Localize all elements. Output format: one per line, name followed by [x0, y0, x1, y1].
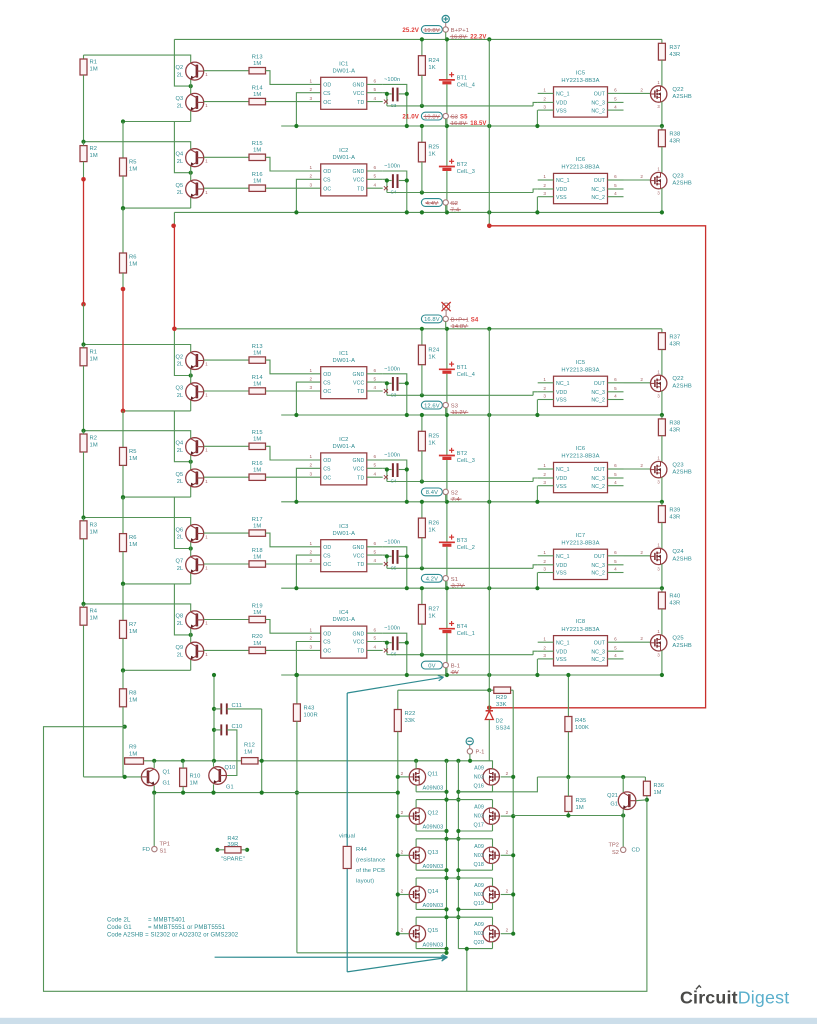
- svg-text:2: 2: [543, 386, 546, 391]
- svg-text:Q24: Q24: [672, 549, 684, 555]
- svg-text:2: 2: [401, 810, 404, 815]
- svg-text:11.2V: 11.2V: [452, 410, 467, 416]
- svg-text:Q1: Q1: [163, 770, 171, 776]
- svg-text:5: 5: [614, 645, 617, 650]
- svg-text:2: 2: [506, 928, 509, 933]
- svg-text:1M: 1M: [576, 805, 584, 811]
- svg-text:2: 2: [506, 849, 509, 854]
- svg-text:HY2213-8B3A: HY2213-8B3A: [561, 540, 599, 546]
- svg-text:1K: 1K: [428, 441, 435, 447]
- svg-text:CS: CS: [323, 91, 331, 97]
- svg-text:39R: 39R: [227, 842, 238, 848]
- svg-text:DW01-A: DW01-A: [333, 68, 356, 74]
- svg-text:S4: S4: [471, 318, 479, 324]
- svg-text:2: 2: [309, 87, 312, 92]
- svg-text:Q6: Q6: [176, 527, 184, 533]
- svg-text:0V: 0V: [452, 670, 459, 676]
- svg-text:R38: R38: [669, 132, 680, 138]
- svg-text:1M: 1M: [253, 468, 261, 474]
- svg-text:~100n: ~100n: [384, 164, 400, 170]
- svg-text:P-1: P-1: [476, 750, 485, 756]
- svg-text:A2SHB: A2SHB: [672, 643, 692, 649]
- svg-text:5: 5: [373, 87, 376, 92]
- svg-text:IC6: IC6: [576, 446, 585, 452]
- svg-text:Code G1: Code G1: [107, 925, 132, 931]
- svg-text:OUT: OUT: [594, 467, 606, 473]
- svg-text:1M: 1M: [129, 542, 137, 548]
- svg-text:G1: G1: [226, 785, 234, 791]
- svg-text:IC1: IC1: [339, 61, 348, 67]
- svg-text:2L: 2L: [177, 190, 183, 196]
- svg-text:IC4: IC4: [339, 610, 349, 616]
- svg-text:DW01-A: DW01-A: [333, 617, 356, 623]
- svg-text:4: 4: [373, 385, 376, 390]
- svg-text:VCC: VCC: [353, 553, 364, 559]
- svg-text:1M: 1M: [253, 437, 261, 443]
- svg-text:2: 2: [543, 645, 546, 650]
- svg-text:R20: R20: [252, 634, 263, 640]
- svg-text:12.6V: 12.6V: [424, 403, 440, 409]
- svg-text:R25: R25: [428, 145, 439, 151]
- svg-text:16.8V: 16.8V: [451, 35, 467, 41]
- svg-text:BT3: BT3: [457, 538, 468, 544]
- svg-text:Q19: Q19: [474, 901, 485, 907]
- svg-text:GND: GND: [352, 169, 364, 175]
- svg-text:HY2213-8B3A: HY2213-8B3A: [561, 627, 599, 633]
- svg-text:2L: 2L: [177, 535, 183, 541]
- svg-text:Q3: Q3: [176, 386, 184, 392]
- svg-text:2: 2: [309, 376, 312, 381]
- svg-text:IC2: IC2: [339, 148, 348, 154]
- svg-text:Q23: Q23: [672, 462, 683, 468]
- svg-text:3: 3: [543, 653, 546, 658]
- svg-text:IC5: IC5: [576, 70, 585, 76]
- svg-text:R45: R45: [575, 718, 586, 724]
- svg-text:~100n: ~100n: [384, 366, 400, 372]
- svg-text:1M: 1M: [244, 750, 252, 756]
- svg-text:N03: N03: [474, 774, 484, 780]
- svg-text:VCC: VCC: [353, 640, 364, 646]
- svg-text:2: 2: [309, 549, 312, 554]
- svg-text:21.0V: 21.0V: [402, 114, 419, 121]
- svg-text:4: 4: [614, 480, 617, 485]
- svg-text:Q18: Q18: [474, 862, 485, 868]
- svg-text:1M: 1M: [253, 148, 261, 154]
- svg-text:= MMBT5401: = MMBT5401: [148, 918, 186, 924]
- svg-text:G1: G1: [610, 802, 618, 808]
- svg-text:3: 3: [543, 191, 546, 196]
- svg-text:~100n: ~100n: [384, 453, 400, 459]
- svg-text:TP2: TP2: [608, 843, 619, 849]
- svg-text:Q5: Q5: [176, 472, 184, 478]
- svg-text:18.5V: 18.5V: [470, 121, 486, 127]
- svg-text:R19: R19: [252, 603, 263, 609]
- svg-text:43R: 43R: [669, 341, 680, 347]
- svg-text:1M: 1M: [253, 554, 261, 560]
- svg-text:~100n: ~100n: [384, 626, 400, 632]
- svg-text:5: 5: [614, 183, 617, 188]
- svg-text:16.8V: 16.8V: [451, 121, 467, 127]
- svg-text:R2: R2: [90, 146, 98, 152]
- svg-text:S2: S2: [612, 850, 619, 856]
- svg-text:1M: 1M: [253, 92, 261, 98]
- svg-text:B+P+1: B+P+1: [451, 318, 469, 324]
- svg-text:OC: OC: [323, 389, 331, 395]
- svg-text:~100n: ~100n: [384, 77, 400, 83]
- svg-text:TD: TD: [357, 562, 364, 568]
- svg-text:layout): layout): [356, 879, 374, 885]
- svg-text:1M: 1M: [253, 610, 261, 616]
- svg-text:S2: S2: [451, 491, 458, 497]
- svg-text:R27: R27: [428, 607, 439, 613]
- svg-text:IC8: IC8: [576, 619, 585, 625]
- svg-text:NC_1: NC_1: [556, 640, 570, 646]
- svg-text:CelL_4: CelL_4: [457, 82, 475, 88]
- svg-text:1M: 1M: [253, 524, 261, 530]
- svg-text:4: 4: [614, 394, 617, 399]
- svg-text:33K: 33K: [496, 702, 507, 708]
- svg-text:100K: 100K: [575, 725, 589, 731]
- svg-text:of the PCB: of the PCB: [356, 868, 385, 874]
- svg-text:1M: 1M: [129, 262, 137, 268]
- svg-text:5: 5: [373, 376, 376, 381]
- svg-text:1: 1: [543, 463, 546, 468]
- svg-text:2L: 2L: [177, 448, 183, 454]
- svg-text:6: 6: [614, 88, 617, 93]
- svg-text:6: 6: [614, 463, 617, 468]
- svg-text:A09: A09: [474, 805, 484, 811]
- svg-text:5: 5: [614, 97, 617, 102]
- svg-text:NC_2: NC_2: [591, 398, 605, 404]
- svg-text:TD: TD: [357, 649, 364, 655]
- svg-text:VSS: VSS: [556, 657, 567, 663]
- svg-text:19.8V: 19.8V: [424, 28, 440, 34]
- svg-text:G1: G1: [163, 781, 171, 787]
- svg-text:NC_1: NC_1: [556, 178, 570, 184]
- svg-text:R6: R6: [129, 255, 137, 261]
- svg-text:HY2213-8B3A: HY2213-8B3A: [561, 78, 599, 84]
- svg-text:4: 4: [614, 104, 617, 109]
- svg-text:Q14: Q14: [428, 889, 439, 895]
- svg-text:2L: 2L: [177, 362, 183, 368]
- svg-text:NC_3: NC_3: [591, 187, 605, 193]
- svg-text:1K: 1K: [428, 152, 435, 158]
- svg-text:A09N03: A09N03: [423, 786, 444, 792]
- svg-text:DW01-A: DW01-A: [333, 444, 356, 450]
- svg-text:A09: A09: [474, 765, 484, 771]
- svg-text:OUT: OUT: [594, 640, 606, 646]
- svg-text:1M: 1M: [90, 616, 98, 622]
- svg-text:3: 3: [309, 182, 312, 187]
- svg-text:NC_2: NC_2: [591, 571, 605, 577]
- svg-text:3: 3: [309, 558, 312, 563]
- svg-text:3: 3: [543, 567, 546, 572]
- svg-text:CelL_3: CelL_3: [457, 169, 475, 175]
- svg-text:N03: N03: [474, 853, 484, 859]
- svg-text:NC_1: NC_1: [556, 467, 570, 473]
- svg-text:R38: R38: [669, 421, 680, 427]
- svg-text:R16: R16: [252, 172, 263, 178]
- svg-text:R9: R9: [129, 745, 137, 751]
- svg-text:Q4: Q4: [176, 152, 184, 158]
- svg-text:2L: 2L: [177, 652, 183, 658]
- svg-text:VDD: VDD: [556, 390, 567, 396]
- svg-text:R44: R44: [356, 847, 368, 853]
- svg-text:A2SHB: A2SHB: [672, 383, 692, 389]
- svg-text:1M: 1M: [129, 697, 137, 703]
- svg-text:VSS: VSS: [556, 571, 567, 577]
- svg-text:6: 6: [614, 377, 617, 382]
- svg-text:2: 2: [543, 183, 546, 188]
- svg-text:R17: R17: [252, 517, 263, 523]
- svg-text:19.8V: 19.8V: [424, 114, 440, 120]
- svg-text:A09N03: A09N03: [423, 825, 444, 831]
- svg-text:43R: 43R: [669, 514, 680, 520]
- svg-text:4: 4: [373, 558, 376, 563]
- svg-text:3: 3: [309, 645, 312, 650]
- svg-text:2L: 2L: [177, 72, 183, 78]
- svg-text:Code 2L: Code 2L: [107, 918, 131, 924]
- svg-text:R15: R15: [252, 430, 263, 436]
- svg-text:1M: 1M: [654, 790, 662, 796]
- svg-text:B-1: B-1: [451, 664, 460, 670]
- svg-text:BT2: BT2: [457, 451, 468, 457]
- svg-text:1: 1: [309, 79, 312, 84]
- svg-text:Q5: Q5: [176, 183, 184, 189]
- svg-text:7.4: 7.4: [451, 208, 460, 214]
- svg-text:IC6: IC6: [576, 157, 585, 163]
- svg-text:2: 2: [640, 550, 643, 555]
- svg-text:2: 2: [401, 928, 404, 933]
- svg-text:2: 2: [543, 97, 546, 102]
- svg-text:GND: GND: [352, 458, 364, 464]
- svg-text:1: 1: [309, 454, 312, 459]
- svg-text:DW01-A: DW01-A: [333, 358, 356, 364]
- svg-text:R18: R18: [252, 548, 263, 554]
- svg-text:OD: OD: [323, 169, 331, 175]
- svg-text:A09N03: A09N03: [423, 942, 444, 948]
- svg-text:GND: GND: [352, 631, 364, 637]
- svg-text:1K: 1K: [428, 614, 435, 620]
- svg-text:A09N03: A09N03: [423, 864, 444, 870]
- svg-text:R13: R13: [252, 344, 263, 350]
- svg-text:6: 6: [373, 627, 376, 632]
- svg-text:OD: OD: [323, 631, 331, 637]
- svg-text:2L: 2L: [177, 566, 183, 572]
- svg-text:2: 2: [640, 87, 643, 92]
- svg-text:OUT: OUT: [594, 178, 606, 184]
- svg-text:R8: R8: [129, 690, 137, 696]
- svg-text:Q9: Q9: [176, 645, 184, 651]
- svg-text:S3: S3: [451, 115, 458, 121]
- svg-text:TD: TD: [357, 475, 364, 481]
- svg-text:1K: 1K: [428, 527, 435, 533]
- svg-text:OUT: OUT: [594, 92, 606, 98]
- svg-text:IC5: IC5: [576, 360, 585, 366]
- svg-text:virtual: virtual: [339, 834, 355, 840]
- svg-text:6: 6: [373, 368, 376, 373]
- svg-text:4: 4: [373, 471, 376, 476]
- svg-text:Q23: Q23: [672, 173, 683, 179]
- svg-text:6: 6: [373, 79, 376, 84]
- svg-text:N03: N03: [474, 892, 484, 898]
- svg-text:BT4: BT4: [457, 624, 468, 630]
- svg-text:14.8V: 14.8V: [452, 324, 468, 330]
- svg-text:R2: R2: [90, 436, 98, 442]
- svg-text:NC_3: NC_3: [591, 649, 605, 655]
- svg-text:R7: R7: [129, 622, 137, 628]
- svg-text:43R: 43R: [669, 601, 680, 607]
- svg-text:HY2213-8B3A: HY2213-8B3A: [561, 367, 599, 373]
- svg-text:3: 3: [543, 480, 546, 485]
- svg-text:3: 3: [309, 385, 312, 390]
- svg-text:R36: R36: [654, 783, 665, 789]
- svg-text:3: 3: [543, 104, 546, 109]
- svg-text:S1: S1: [451, 577, 458, 583]
- svg-text:R6: R6: [129, 535, 137, 541]
- svg-text:R39: R39: [669, 507, 680, 513]
- svg-text:1M: 1M: [129, 752, 137, 758]
- svg-text:Q8: Q8: [176, 614, 184, 620]
- svg-text:NC_1: NC_1: [556, 92, 570, 98]
- svg-text:4: 4: [373, 96, 376, 101]
- svg-text:1K: 1K: [428, 65, 435, 71]
- svg-text:1: 1: [309, 165, 312, 170]
- svg-text:2: 2: [401, 849, 404, 854]
- svg-text:NC_3: NC_3: [591, 476, 605, 482]
- svg-text:Q12: Q12: [428, 811, 439, 817]
- svg-text:4: 4: [373, 645, 376, 650]
- svg-text:TD: TD: [357, 389, 364, 395]
- svg-text:Q20: Q20: [474, 940, 485, 946]
- svg-text:C11: C11: [232, 703, 243, 709]
- svg-text:5: 5: [614, 559, 617, 564]
- svg-text:1M: 1M: [90, 67, 98, 73]
- svg-text:2: 2: [309, 463, 312, 468]
- svg-text:A2SHB: A2SHB: [672, 94, 692, 100]
- svg-text:CS: CS: [323, 640, 331, 646]
- svg-text:1: 1: [543, 88, 546, 93]
- svg-text:HY2213-8B3A: HY2213-8B3A: [561, 165, 599, 171]
- svg-text:Q21: Q21: [607, 793, 618, 799]
- svg-text:4: 4: [614, 191, 617, 196]
- svg-text:43R: 43R: [669, 428, 680, 434]
- svg-text:A2SHB: A2SHB: [672, 556, 692, 562]
- svg-text:FD: FD: [142, 847, 150, 853]
- svg-text:R40: R40: [669, 594, 680, 600]
- svg-text:NC_1: NC_1: [556, 381, 570, 387]
- svg-text:2L: 2L: [177, 393, 183, 399]
- svg-text:R14: R14: [252, 375, 264, 381]
- svg-text:NC_3: NC_3: [591, 563, 605, 569]
- svg-text:S3: S3: [451, 404, 458, 410]
- svg-text:R24: R24: [428, 58, 440, 64]
- svg-text:TD: TD: [357, 100, 364, 106]
- svg-text:2: 2: [640, 377, 643, 382]
- svg-text:A09: A09: [474, 922, 484, 928]
- svg-text:1M: 1M: [190, 781, 198, 787]
- svg-text:1: 1: [543, 174, 546, 179]
- svg-text:S1: S1: [160, 849, 167, 855]
- svg-text:VSS: VSS: [556, 195, 567, 201]
- svg-text:22.2V: 22.2V: [470, 35, 486, 41]
- svg-text:1M: 1M: [253, 381, 261, 387]
- svg-text:VDD: VDD: [556, 101, 567, 107]
- svg-text:VCC: VCC: [353, 380, 364, 386]
- svg-text:CD: CD: [632, 848, 641, 854]
- svg-text:2: 2: [640, 636, 643, 641]
- svg-text:2: 2: [401, 771, 404, 776]
- svg-text:OUT: OUT: [594, 554, 606, 560]
- svg-text:TD: TD: [357, 186, 364, 192]
- svg-text:1M: 1M: [253, 641, 261, 647]
- svg-text:1M: 1M: [90, 153, 98, 159]
- svg-text:OC: OC: [323, 649, 331, 655]
- svg-text:43R: 43R: [669, 52, 680, 58]
- svg-text:R14: R14: [252, 85, 264, 91]
- svg-text:1: 1: [543, 636, 546, 641]
- svg-text:NC_3: NC_3: [591, 101, 605, 107]
- svg-text:4: 4: [614, 653, 617, 658]
- svg-text:8.4V: 8.4V: [426, 490, 438, 496]
- svg-text:VSS: VSS: [556, 398, 567, 404]
- svg-text:R43: R43: [304, 706, 315, 712]
- svg-text:BT1: BT1: [457, 365, 468, 371]
- svg-text:VDD: VDD: [556, 649, 567, 655]
- svg-text:Q2: Q2: [176, 65, 184, 71]
- svg-text:6: 6: [614, 174, 617, 179]
- svg-text:1M: 1M: [90, 443, 98, 449]
- svg-text:1M: 1M: [253, 61, 261, 67]
- svg-text:R1: R1: [90, 60, 98, 66]
- svg-text:DW01-A: DW01-A: [333, 155, 356, 161]
- svg-text:A2SHB: A2SHB: [672, 470, 692, 476]
- svg-text:S2: S2: [451, 201, 458, 207]
- svg-text:2: 2: [506, 810, 509, 815]
- svg-text:R5: R5: [129, 449, 137, 455]
- svg-text:NC_1: NC_1: [556, 554, 570, 560]
- svg-text:C10: C10: [232, 724, 243, 730]
- svg-text:5: 5: [373, 174, 376, 179]
- svg-text:CircuitDigest: CircuitDigest: [680, 988, 789, 1008]
- svg-text:A09: A09: [474, 844, 484, 850]
- svg-text:R37: R37: [669, 45, 680, 51]
- svg-text:IC3: IC3: [339, 524, 348, 530]
- svg-text:VSS: VSS: [556, 484, 567, 490]
- svg-text:R1: R1: [90, 349, 98, 355]
- svg-text:R26: R26: [428, 520, 439, 526]
- svg-text:Code A2SHB = SI2302 or AO2302: Code A2SHB = SI2302 or AO2302 or GMS2302: [107, 933, 239, 939]
- svg-text:1M: 1M: [90, 356, 98, 362]
- svg-text:R22: R22: [405, 711, 416, 717]
- svg-text:2L: 2L: [177, 104, 183, 110]
- svg-text:Q2: Q2: [176, 354, 184, 360]
- svg-text:(resistance: (resistance: [356, 858, 385, 864]
- svg-text:R35: R35: [576, 798, 587, 804]
- svg-text:43R: 43R: [669, 139, 680, 145]
- svg-text:OUT: OUT: [594, 381, 606, 387]
- svg-text:R5: R5: [129, 160, 137, 166]
- svg-text:100R: 100R: [304, 713, 318, 719]
- svg-text:2: 2: [640, 463, 643, 468]
- svg-text:NC_3: NC_3: [591, 390, 605, 396]
- svg-text:A09N03: A09N03: [423, 903, 444, 909]
- svg-text:TP1: TP1: [160, 842, 171, 848]
- svg-text:R16: R16: [252, 461, 263, 467]
- svg-text:6: 6: [373, 541, 376, 546]
- svg-text:Q22: Q22: [672, 376, 683, 382]
- svg-text:1M: 1M: [90, 529, 98, 535]
